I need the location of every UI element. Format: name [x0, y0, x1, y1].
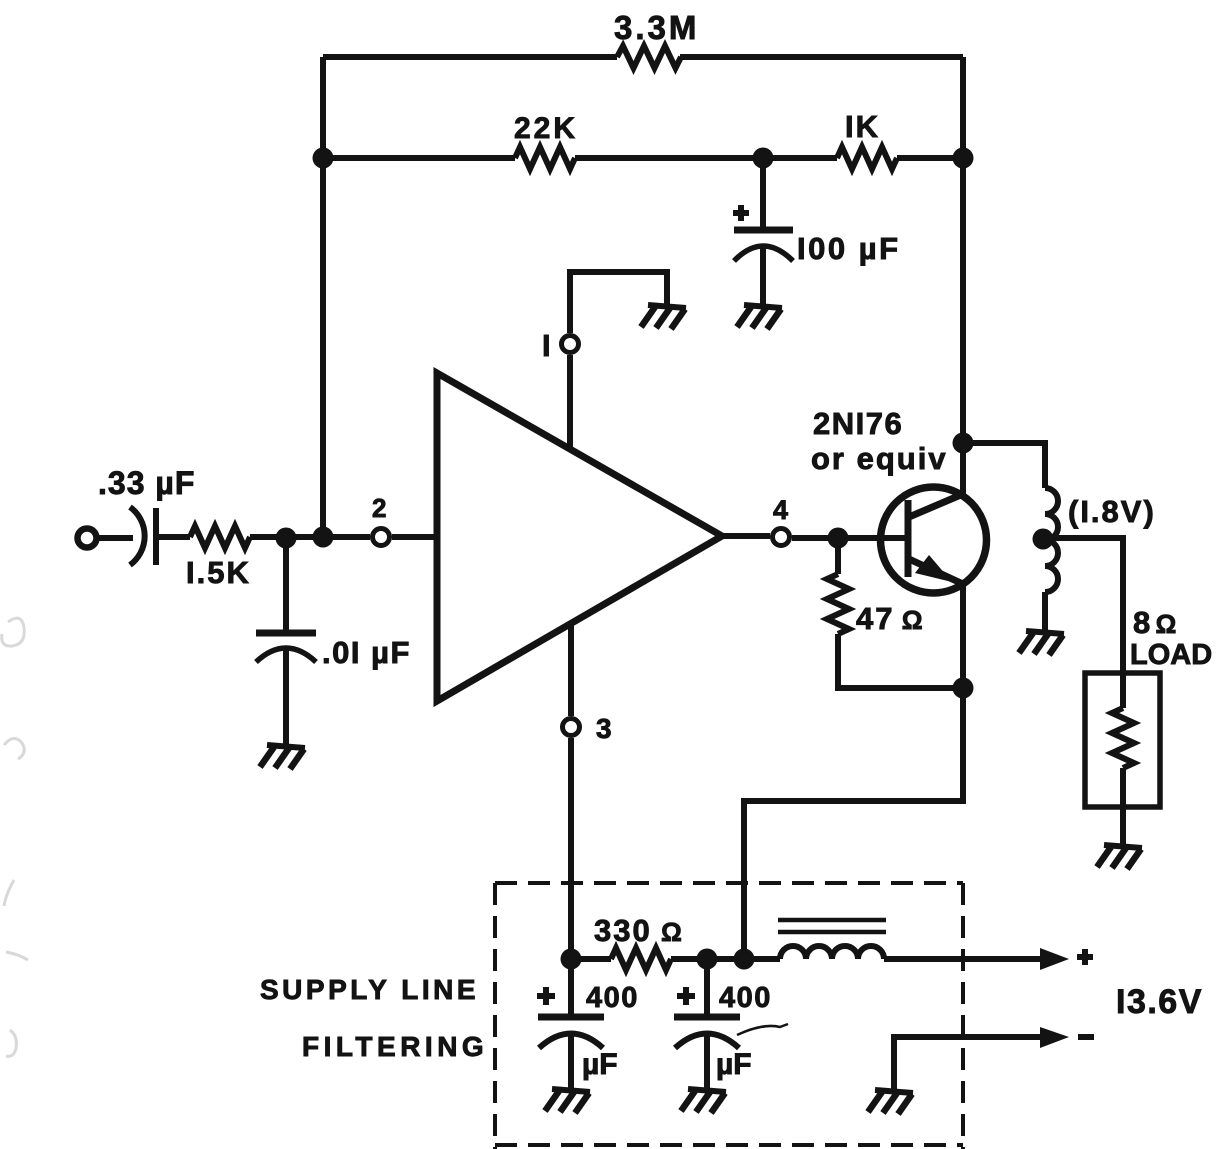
pin 1 terminal	[562, 336, 579, 353]
svg-text:2: 2	[372, 493, 386, 523]
node junction left 22K	[313, 148, 334, 169]
wire 1K to rail	[897, 155, 963, 161]
capacitor C 400uF-2 plus	[677, 987, 695, 1005]
svg-text:I: I	[542, 328, 551, 363]
node feedback junction	[313, 527, 334, 548]
capacitor C 400uF-1 top plate	[538, 1014, 604, 1021]
svg-text:IK: IK	[845, 109, 880, 144]
wire top feedback horizontal left	[323, 54, 617, 60]
capacitor C .33uF straight plate	[153, 508, 159, 565]
capacitor C 400uF-2 curved plate	[675, 1034, 739, 1049]
inductor core line 2	[778, 930, 886, 935]
resistor R 3.3M	[617, 46, 681, 68]
node cap2 junction	[697, 949, 718, 970]
dashed box supply filter top	[495, 881, 963, 885]
svg-text:3: 3	[596, 713, 612, 744]
ground pin1 net	[641, 305, 686, 329]
capacitor C 100uF top plate	[734, 227, 793, 234]
transistor Q1 2N176 circle	[881, 487, 987, 593]
capacitor C 100uF plus	[733, 205, 749, 221]
svg-text:22K: 22K	[514, 112, 578, 145]
inductor L driver choke	[1045, 488, 1058, 592]
transistor Q1 emitter arrow	[915, 555, 952, 582]
ground 400uF-2	[681, 1089, 726, 1113]
wire pin4 to base	[792, 535, 906, 541]
capacitor C .01uF curved plate	[256, 648, 316, 662]
wire filter in	[571, 956, 611, 962]
svg-text:SUPPLY LINE: SUPPLY LINE	[260, 974, 479, 1005]
wire right vertical rail	[960, 57, 966, 496]
wire 330 to nodes	[671, 956, 780, 962]
wire pin1 to op-amp	[567, 355, 573, 452]
input terminal circle	[78, 529, 97, 548]
wire collector to choke	[963, 443, 1045, 488]
node junction 100uF	[753, 148, 774, 169]
svg-text:I00 µF: I00 µF	[797, 231, 901, 266]
wire top feedback horizontal right	[680, 54, 963, 60]
svg-text:LOAD: LOAD	[1130, 639, 1212, 671]
scan smudges	[2, 618, 28, 1056]
arrow minus output	[1040, 1027, 1069, 1048]
transistor Q1 emitter	[909, 559, 963, 584]
node emitter junction	[953, 678, 974, 699]
capacitor C 400uF-2 top plate	[674, 1014, 740, 1021]
plus output sign	[1077, 949, 1093, 965]
svg-text:8 Ω: 8 Ω	[1133, 605, 1176, 640]
resistor R 47	[827, 574, 849, 634]
ground minus	[868, 1090, 913, 1114]
svg-text:(I.8V): (I.8V)	[1068, 494, 1156, 529]
ground 100uF	[737, 305, 782, 329]
node input junction	[276, 528, 297, 549]
capacitor C 400uF-1 lead	[568, 959, 574, 1017]
dashed box supply filter bottom	[495, 1143, 963, 1147]
pin 4 terminal	[773, 529, 790, 546]
capacitor C .01uF lead	[283, 538, 289, 633]
wire cap to resistor	[158, 534, 190, 540]
capacitor C 400uF-2 lead	[704, 959, 710, 1017]
op-amp U1	[437, 373, 722, 701]
resistor R load	[1112, 708, 1134, 768]
wire tap to load	[1049, 538, 1123, 673]
wire minus output	[894, 1037, 1042, 1091]
wire emitter down	[744, 584, 963, 959]
wire op-amp output	[722, 533, 770, 539]
arrow plus output	[1040, 948, 1069, 970]
wire 400uF-1 to ground	[568, 1036, 574, 1090]
svg-text:400: 400	[586, 982, 639, 1014]
capacitor C 400uF-1 plus	[537, 987, 555, 1005]
load resistor lead top	[1120, 673, 1126, 708]
minus output sign	[1078, 1034, 1094, 1040]
node choke tap	[1033, 529, 1054, 550]
transistor Q1 base bar	[905, 500, 912, 577]
pin 2 terminal	[373, 529, 390, 546]
svg-text:47 Ω: 47 Ω	[856, 601, 925, 636]
inductor core line 1	[778, 918, 886, 923]
capacitor C .33uF curved plate	[130, 507, 145, 565]
ground .01uF	[260, 745, 305, 769]
svg-text:2NI76: 2NI76	[813, 406, 903, 441]
resistor R 330	[611, 948, 671, 970]
wire op-amp to pin3	[568, 622, 574, 716]
resistor R 22K	[515, 147, 575, 169]
resistor R 1K	[837, 147, 897, 169]
capacitor C 400uF-1 curved plate	[539, 1034, 603, 1049]
svg-text:I3.6V: I3.6V	[1116, 983, 1203, 1021]
svg-text:.0I µF: .0I µF	[322, 635, 411, 670]
wire pin1 to ground net	[570, 272, 667, 333]
load box	[1085, 673, 1160, 807]
wire pin2 to op-amp	[392, 534, 437, 540]
dashed box supply filter left	[493, 883, 497, 1149]
resistor R 1.5K	[190, 526, 250, 548]
wire choke to ground	[1042, 592, 1048, 632]
node filter in junction	[561, 949, 582, 970]
wire 47 bottom	[838, 634, 963, 688]
inductor L filter choke	[780, 946, 884, 959]
node junction right rail	[953, 148, 974, 169]
svg-text:4: 4	[773, 495, 788, 525]
node base junction	[828, 528, 849, 549]
capacitor C 100uF curved plate	[734, 246, 793, 261]
svg-text:.33 µF: .33 µF	[98, 465, 195, 501]
transistor Q1 collector	[909, 494, 963, 517]
wire feedback vertical left	[320, 57, 326, 537]
wire 400uF-2 to ground	[704, 1036, 710, 1090]
ground choke	[1019, 631, 1064, 655]
ground 400uF-1	[545, 1089, 590, 1113]
pin 3 terminal	[563, 719, 580, 736]
stray mark near cap2	[737, 1024, 788, 1035]
svg-text:or equiv: or equiv	[811, 441, 948, 476]
svg-text:µF: µF	[716, 1048, 752, 1081]
load resistor lead bottom	[1120, 768, 1126, 846]
svg-text:µF: µF	[582, 1048, 618, 1081]
wire 100uF to ground	[760, 248, 766, 306]
dashed box supply filter right	[961, 883, 965, 1149]
svg-text:3.3M: 3.3M	[614, 9, 699, 46]
capacitor C .01uF top plate	[256, 630, 316, 637]
node collector junction	[953, 433, 974, 454]
resistor R 47 lead	[835, 538, 841, 574]
svg-text:330 Ω: 330 Ω	[594, 913, 684, 948]
wire .01uF to ground	[283, 650, 289, 746]
wire plus output	[884, 956, 1042, 962]
svg-text:FILTERING: FILTERING	[302, 1031, 488, 1062]
svg-text:400: 400	[719, 982, 772, 1014]
wire resistor to pin2	[250, 534, 370, 540]
wire pin3 down to filter	[568, 738, 574, 959]
wire 22K row left	[323, 155, 515, 161]
svg-text:I.5K: I.5K	[186, 555, 251, 590]
wire input to cap	[99, 535, 133, 541]
wire 22K to node	[575, 155, 837, 161]
ground load	[1097, 845, 1142, 869]
capacitor C 100uF lead	[760, 158, 766, 230]
node supply junction	[734, 949, 755, 970]
